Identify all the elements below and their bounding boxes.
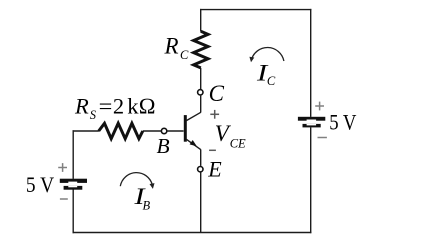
- svg-text:S: S: [90, 108, 97, 122]
- svg-text:=: =: [99, 94, 113, 119]
- current arrow I_B (clockwise arc): [120, 173, 154, 189]
- wire node C to R_C: [200, 68, 202, 89]
- svg-text:E: E: [207, 156, 222, 181]
- wire emitter to node E: [200, 149, 202, 166]
- current arrow I_C (counterclockwise arc): [249, 48, 284, 63]
- polarity + of battery V1: [58, 163, 67, 172]
- label I_C: [256, 60, 276, 88]
- wire R_C to top rail: [200, 9, 202, 32]
- label R_C: [164, 34, 190, 62]
- svg-text:B: B: [143, 199, 151, 213]
- svg-text:2: 2: [113, 94, 124, 119]
- wire base branch (left segment): [73, 130, 99, 132]
- wire right rail upper: [310, 9, 312, 117]
- svg-text:C: C: [209, 81, 225, 106]
- transistor Q1 collector lead: [186, 112, 200, 120]
- polarity + of battery V2: [315, 102, 324, 111]
- svg-text:B: B: [157, 134, 170, 158]
- svg-text:C: C: [180, 48, 189, 62]
- wire collector to node C: [200, 96, 202, 113]
- svg-text:5 V: 5 V: [329, 109, 356, 134]
- wire left rail upper: [72, 130, 74, 179]
- svg-text:C: C: [267, 74, 276, 88]
- battery V2 (5 V, right): [298, 117, 325, 128]
- node B terminal: [161, 128, 166, 133]
- polarity - of battery V1: [60, 198, 68, 200]
- transistor Q1 emitter lead: [186, 139, 200, 149]
- node C terminal: [198, 90, 203, 95]
- wire top rail: [200, 9, 311, 11]
- polarity - of battery V2: [318, 137, 327, 139]
- label R_S = 2 kOhm: [74, 94, 156, 122]
- polarity - of V_CE: [209, 149, 216, 151]
- node E terminal: [198, 167, 203, 172]
- polarity + of V_CE: [210, 110, 219, 119]
- svg-text:5 V: 5 V: [26, 172, 54, 197]
- wire node B to transistor base: [167, 130, 183, 132]
- svg-text:R: R: [74, 94, 89, 119]
- transistor Q1 base bar: [184, 115, 187, 142]
- svg-text:CE: CE: [230, 137, 246, 151]
- resistor R_S: [99, 123, 143, 138]
- wire node E to bottom rail: [200, 172, 202, 232]
- label I_B: [133, 184, 150, 212]
- svg-text:R: R: [164, 34, 179, 59]
- wire left rail lower: [72, 190, 74, 234]
- transistor Q1 emitter arrowhead: [190, 140, 197, 146]
- label V_CE: [215, 121, 246, 150]
- svg-text:kΩ: kΩ: [127, 94, 156, 119]
- resistor R_C: [194, 31, 208, 68]
- battery V1 (5 V, left): [60, 179, 87, 190]
- wire right rail lower: [310, 127, 312, 233]
- wire R_S to node B: [143, 130, 161, 132]
- wire bottom rail: [73, 232, 312, 234]
